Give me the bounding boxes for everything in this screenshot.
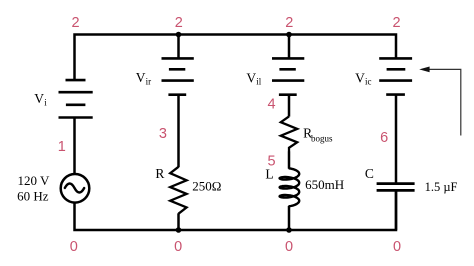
svg-text:0: 0 xyxy=(393,239,401,255)
svg-text:2: 2 xyxy=(175,15,183,31)
svg-text:60 Hz: 60 Hz xyxy=(17,188,49,203)
svg-text:0: 0 xyxy=(70,239,78,255)
svg-text:ir: ir xyxy=(146,76,152,86)
svg-text:5: 5 xyxy=(267,154,275,170)
svg-text:120 V: 120 V xyxy=(18,173,51,188)
svg-text:C: C xyxy=(365,166,374,181)
svg-text:R: R xyxy=(155,166,164,181)
svg-text:i: i xyxy=(44,97,47,107)
svg-text:V: V xyxy=(355,70,365,85)
svg-text:3: 3 xyxy=(159,126,167,142)
svg-text:bogus: bogus xyxy=(311,134,333,144)
svg-text:4: 4 xyxy=(267,96,275,112)
svg-text:1: 1 xyxy=(58,139,66,155)
svg-text:ic: ic xyxy=(365,77,372,87)
svg-text:650mH: 650mH xyxy=(305,177,344,192)
svg-text:2: 2 xyxy=(71,15,79,31)
svg-text:V: V xyxy=(34,91,44,106)
svg-text:1.5 µF: 1.5 µF xyxy=(425,180,458,194)
svg-text:2: 2 xyxy=(285,15,293,31)
svg-text:0: 0 xyxy=(285,239,293,255)
svg-text:il: il xyxy=(256,77,262,87)
svg-text:V: V xyxy=(246,70,256,85)
svg-text:0: 0 xyxy=(174,239,182,255)
svg-text:6: 6 xyxy=(380,130,388,146)
svg-text:V: V xyxy=(136,70,146,85)
svg-text:250Ω: 250Ω xyxy=(192,179,221,194)
svg-text:2: 2 xyxy=(392,15,400,31)
